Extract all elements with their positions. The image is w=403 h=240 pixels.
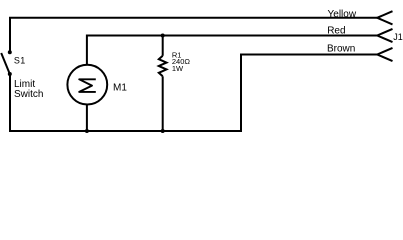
- svg-text:Yellow: Yellow: [328, 9, 357, 20]
- svg-text:M1: M1: [113, 82, 127, 93]
- motor M1 rotated-M glyph: [79, 79, 96, 92]
- wire: motor bottom vertical: [86, 104, 88, 131]
- svg-text:Switch: Switch: [14, 89, 43, 100]
- wire: resistor top stub: [162, 36, 164, 56]
- resistor R1 zigzag: [159, 56, 167, 77]
- switch S1 top contact dot: [8, 50, 12, 54]
- svg-text:1: 1: [20, 56, 25, 66]
- svg-text:Brown: Brown: [327, 43, 355, 54]
- connector J1 pin 3 arrow (brown): [377, 48, 392, 61]
- svg-text:J1: J1: [393, 32, 403, 42]
- switch S1 blade: [1, 53, 10, 74]
- wire: resistor bottom stub: [162, 76, 164, 131]
- motor M1 body circle: [67, 65, 107, 105]
- switch S1 bottom contact dot: [8, 72, 12, 76]
- svg-text:1W: 1W: [172, 64, 184, 73]
- connector J1 pin 2 arrow (red): [377, 29, 392, 42]
- connector J1 pin 1 arrow (yellow): [377, 11, 392, 24]
- svg-text:Red: Red: [327, 25, 345, 36]
- wire: left vertical upper + top (yellow) rail: [10, 18, 377, 52]
- node: junction dot motor bottom: [85, 129, 89, 133]
- wire: red wire + motor top vertical: [87, 36, 377, 65]
- node: junction dot resistor top: [161, 34, 165, 38]
- wire: switch bottom to bottom rail, riser, brown wire: [10, 55, 377, 132]
- svg-text:S: S: [14, 56, 20, 66]
- node: junction dot resistor bottom: [161, 129, 165, 133]
